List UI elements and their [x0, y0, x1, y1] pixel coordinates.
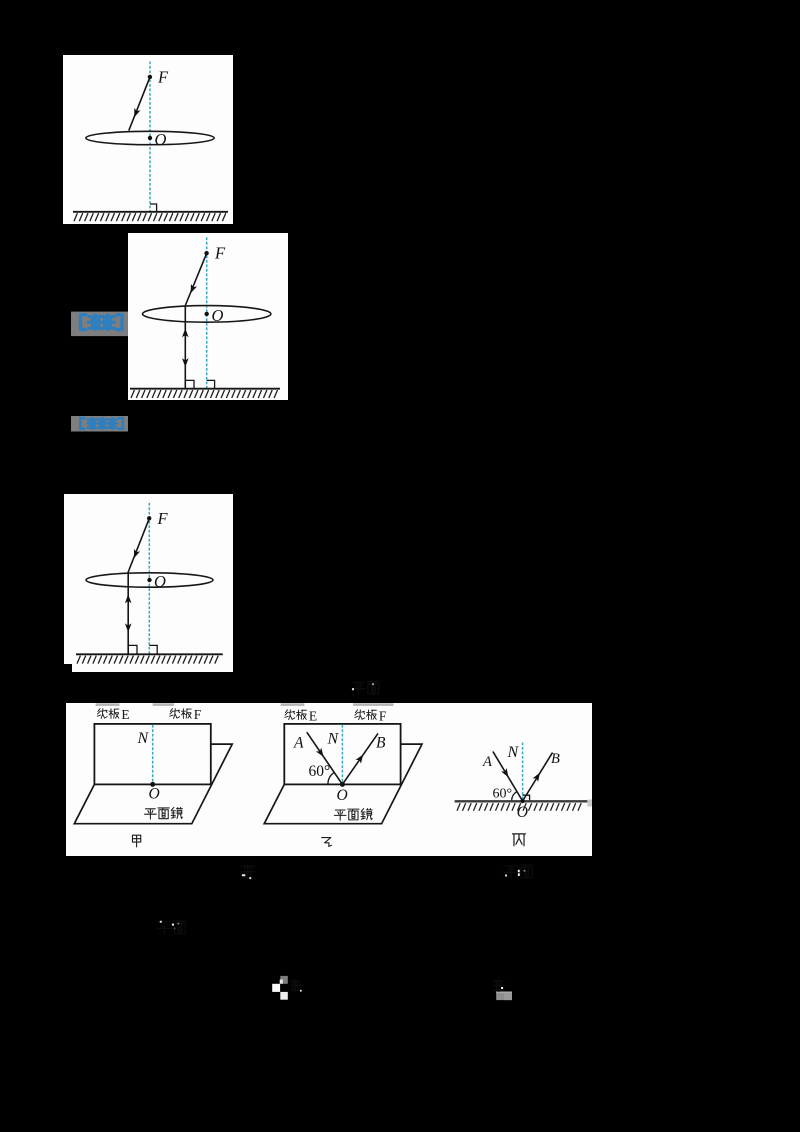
bing: 60 degree label	[493, 787, 513, 802]
yi: cardboard rectangle	[284, 724, 400, 785]
svg-text:B: B	[551, 751, 560, 767]
panel 1 label F	[157, 67, 169, 86]
faint residual glyphs mid-left	[157, 921, 186, 934]
bing: mirror surface line	[455, 800, 592, 807]
bing: point O dot	[520, 799, 524, 803]
jia: cardboard label E	[97, 707, 129, 722]
panel 3 lens ellipse	[86, 573, 213, 587]
yi: label B	[376, 734, 386, 751]
svg-text:O: O	[212, 306, 224, 325]
yi: dashed normal ON	[341, 725, 343, 785]
svg-text:E: E	[121, 707, 129, 722]
panel 3 label O	[154, 572, 166, 591]
bing: label N	[507, 744, 520, 761]
panel 1 point F	[148, 75, 152, 79]
jia: caption	[132, 835, 140, 847]
bing: caption	[513, 834, 526, 846]
bing: dashed normal ON	[522, 743, 524, 802]
jia: dashed normal ON	[152, 725, 154, 785]
jia: mirror caption	[145, 807, 183, 819]
svg-text:N: N	[137, 730, 150, 747]
yi: label N	[327, 731, 340, 748]
panel 2 incident ray from F	[185, 253, 206, 305]
jia: point O dot	[150, 782, 155, 787]
panel 2 lens ellipse	[143, 306, 271, 323]
clipped text remnants along panel top	[96, 703, 394, 706]
bing: incident ray A	[493, 752, 523, 802]
yi: mirror parallelogram	[264, 744, 422, 824]
panel 1 dashed principal axis	[149, 62, 151, 212]
svg-text:F: F	[214, 244, 226, 263]
panel 1 incident ray from F	[129, 77, 150, 131]
panel 1 right-angle mark at ground	[150, 204, 157, 211]
jia: cardboard label F	[170, 707, 202, 722]
bing: reflected ray B	[523, 753, 553, 801]
partially inverted caption yi	[493, 979, 512, 1000]
figure panel 3: answer diagram repeat	[64, 494, 233, 672]
partially inverted caption jia	[272, 976, 302, 1000]
highlighted tag box 1 (answer label)	[71, 312, 128, 337]
panel 2 right-angle mark at axis foot	[207, 380, 215, 388]
jia: label O	[149, 786, 160, 803]
panel 3 label F	[157, 509, 169, 528]
bing: mirror hatching	[457, 803, 581, 811]
yi: reflected ray B	[342, 733, 378, 784]
bing: label B	[551, 751, 560, 767]
panel 1 optical centre O dot	[148, 136, 152, 140]
svg-text:O: O	[155, 130, 167, 149]
panel 1 lens ellipse	[86, 131, 214, 144]
highlighted tag box 2 (analysis label)	[71, 416, 128, 432]
panel 3 dashed principal axis	[148, 503, 150, 654]
svg-text:A: A	[293, 734, 304, 751]
bing: angle arc	[512, 792, 517, 801]
yi: 60 degree label	[309, 763, 331, 780]
panel 3 optical centre O dot	[147, 578, 151, 582]
svg-text:60°: 60°	[309, 763, 331, 780]
yi: label O	[337, 787, 348, 804]
panel 2 label O	[212, 306, 224, 325]
panel 2 optical centre O dot	[205, 312, 209, 316]
svg-text:F: F	[194, 707, 202, 722]
faint residual glyphs below panel (right)	[504, 865, 533, 878]
svg-text:O: O	[337, 787, 348, 804]
svg-text:A: A	[482, 754, 492, 770]
faint residual glyph below panel (left)	[241, 864, 255, 879]
svg-text:F: F	[157, 509, 169, 528]
figure panel 1: lens above mirror on ground, incident ray only	[63, 55, 233, 224]
svg-text:E: E	[309, 708, 317, 723]
yi: incident ray A	[307, 732, 343, 784]
panel 1 label O	[155, 130, 167, 149]
figure panel 2: answer diagram, ray refracted vertically to mirror	[128, 233, 288, 400]
panel 3 vertical ray with double arrows	[125, 572, 132, 654]
panel 2 right-angle mark at ray foot	[185, 380, 194, 388]
yi: point O dot	[340, 782, 345, 787]
jia: label N	[137, 730, 150, 747]
svg-text:F: F	[157, 67, 169, 86]
yi: cardboard label F	[355, 708, 387, 723]
panel 2 ground hatching	[131, 390, 278, 398]
bing: label A	[482, 754, 492, 770]
panel 3 ground line	[76, 653, 223, 655]
svg-text:N: N	[327, 731, 340, 748]
yi: label A	[293, 734, 304, 751]
panel 2 dashed principal axis	[206, 237, 208, 388]
tag box 2 blue text	[80, 418, 123, 429]
panel 2 label F	[214, 244, 226, 263]
svg-text:O: O	[154, 572, 166, 591]
panel 3 ground hatching	[77, 656, 218, 664]
bing: label O	[517, 804, 528, 821]
panel 1 ground line	[73, 211, 228, 213]
bing: right-angle mark at normal	[523, 795, 530, 801]
yi: mirror caption	[334, 809, 372, 821]
svg-text:O: O	[149, 786, 160, 803]
panel 2 point F	[204, 251, 208, 255]
wide figure panel: three mirror experiment diagrams	[66, 703, 592, 856]
faint residual text above wide panel	[352, 681, 380, 694]
yi: caption	[322, 838, 332, 847]
tag box 1 blue text	[80, 315, 122, 330]
panel 2 ground line	[130, 388, 280, 390]
panel 2 vertical refracted/reflected ray with double arrows	[182, 306, 189, 389]
panel 3 incident ray from F	[128, 518, 149, 572]
yi: cardboard label E	[285, 708, 317, 723]
panel 3 point F	[147, 516, 151, 520]
panel 3 right-angle mark at axis foot	[149, 645, 157, 653]
jia: mirror parallelogram	[74, 744, 232, 824]
svg-text:O: O	[517, 804, 528, 821]
panel 1 ground hatching	[74, 213, 226, 221]
jia: cardboard rectangle	[94, 724, 210, 785]
svg-text:N: N	[507, 744, 520, 761]
svg-text:F: F	[379, 708, 387, 723]
svg-text:60°: 60°	[493, 787, 513, 802]
yi: angle arc	[328, 772, 334, 784]
svg-text:B: B	[376, 734, 386, 751]
panel 3 right-angle mark at ray foot	[128, 645, 137, 653]
